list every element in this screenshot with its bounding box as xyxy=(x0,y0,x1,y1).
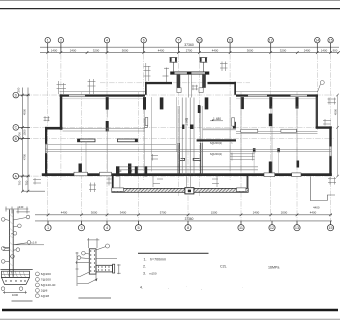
svg-text:3400: 3400 xyxy=(120,210,127,214)
d2 left small dim xyxy=(76,261,90,264)
entry column xyxy=(185,188,194,194)
svg-text:2000: 2000 xyxy=(281,210,288,214)
bottom dim ticks xyxy=(47,214,332,217)
left axis bubbles xyxy=(13,92,30,179)
d1 wall double line xyxy=(10,210,14,278)
west outer wall vertical xyxy=(45,127,47,176)
svg-text:7@200: 7@200 xyxy=(41,278,51,282)
stair half landing slab xyxy=(202,128,236,130)
d1 leader circles xyxy=(1,215,30,263)
thin verticals right rooms xyxy=(254,151,278,173)
interior wall right section upper xyxy=(236,132,318,134)
d1 top dim line xyxy=(5,207,29,214)
svg-text:900: 900 xyxy=(333,49,338,53)
top axis bubbles xyxy=(45,38,333,53)
protrusion lintel 2 xyxy=(237,188,246,192)
stair bay east jamb xyxy=(247,175,249,190)
east step wall xyxy=(316,126,332,128)
d2 wall vertical xyxy=(89,249,96,274)
d2 mid leader line right xyxy=(96,258,117,260)
svg-text:4400: 4400 xyxy=(212,49,219,53)
grid axis 2 vertical xyxy=(60,45,62,180)
stair flight feet xyxy=(182,125,184,130)
raised block right jamb xyxy=(234,82,236,95)
main top wall east xyxy=(236,94,317,96)
svg-text:10: 10 xyxy=(198,39,202,43)
grid axis 11a vertical xyxy=(229,45,231,180)
svg-text:1000: 1000 xyxy=(12,293,19,297)
stairwell wall upper thin lines xyxy=(178,106,202,143)
svg-text:C2L: C2L xyxy=(220,265,227,269)
svg-text:3000: 3000 xyxy=(247,49,254,53)
door arc detail x92 xyxy=(89,183,96,193)
d2 leader circle top xyxy=(96,244,110,250)
interior partition wall row B west xyxy=(78,139,96,142)
small marks at stair center dims xyxy=(153,176,219,188)
svg-text:2400: 2400 xyxy=(70,49,77,53)
d2 footing horizontal xyxy=(96,265,113,272)
svg-text:11: 11 xyxy=(239,226,243,230)
white pier left edge of stair block xyxy=(145,118,148,126)
west wall window lines xyxy=(45,144,47,153)
bottom bubble numerals xyxy=(47,226,333,230)
svg-text:4.: 4. xyxy=(140,286,143,290)
grid row C horizontal xyxy=(24,126,334,128)
svg-text:15: 15 xyxy=(328,226,332,230)
small dim cluster at raised block left xyxy=(144,63,151,81)
pier under top wall at axis11 xyxy=(241,97,244,109)
interior wall west section upper xyxy=(63,128,146,131)
left dim bottom terminator xyxy=(22,190,45,192)
small dim cluster at raised block right xyxy=(220,62,228,72)
top dim texts xyxy=(51,49,338,53)
d2 bottom leaders xyxy=(76,252,98,286)
top wall inner line west xyxy=(60,98,146,100)
entry column core xyxy=(188,190,191,193)
top grey edge xyxy=(0,0,340,2)
raised block wall right part xyxy=(208,82,237,84)
east wall window gap xyxy=(330,147,332,157)
lintel on south wall right 1 xyxy=(264,173,275,177)
corridor rail line 2 xyxy=(119,169,258,171)
svg-text:6: 6 xyxy=(143,39,145,43)
d2 footing end plate xyxy=(113,264,115,273)
grid axis 12 vertical xyxy=(270,45,272,221)
top border line xyxy=(0,8,340,10)
window in top wall east 2 xyxy=(291,95,308,97)
corridor rail line 1 xyxy=(119,166,258,168)
pier blobs on corridor wall right xyxy=(253,148,256,152)
svg-text:4: 4 xyxy=(106,226,108,230)
shaft band dark block left xyxy=(170,72,174,75)
NE corner wall vertical xyxy=(316,94,318,128)
grid axis 1 vertical xyxy=(47,45,49,221)
svg-text:>: > xyxy=(231,141,233,145)
small dim ticks right-mid xyxy=(230,153,255,161)
pier row A2 at x129 xyxy=(128,164,131,174)
d1 footing top line xyxy=(1,269,33,271)
d1 footing mid line xyxy=(2,273,30,275)
pier axis12 mid xyxy=(269,114,273,127)
vent cap right xyxy=(200,57,208,71)
svg-text:2400: 2400 xyxy=(253,210,260,214)
interior partition wall row B mid xyxy=(118,139,138,142)
bottom axis bubbles xyxy=(45,221,334,231)
tick cluster below shaft xyxy=(192,85,199,90)
svg-text:15: 15 xyxy=(329,39,333,43)
svg-text:2.: 2. xyxy=(143,265,146,269)
svg-text:4500: 4500 xyxy=(333,108,337,115)
d1 bottom circles xyxy=(1,287,23,291)
top bubble numerals xyxy=(47,39,333,43)
window in top wall east 1 xyxy=(248,95,267,97)
d2 top dim xyxy=(87,238,99,248)
pier under top wall at axis6 xyxy=(143,97,146,110)
notes divider line xyxy=(138,252,209,254)
pier at axis11a xyxy=(233,122,236,130)
bottom dim texts xyxy=(61,210,317,214)
grid axis 6 vertical xyxy=(143,45,145,180)
bottom dim line 1 xyxy=(35,214,332,216)
pier row A2 at x80 xyxy=(79,164,82,174)
svg-text:3200: 3200 xyxy=(93,49,100,53)
bottom title bar line xyxy=(2,309,338,312)
stair handrail hook left xyxy=(180,158,185,160)
left dim line 2 xyxy=(27,88,29,192)
svg-text:h=700mm: h=700mm xyxy=(150,258,166,262)
svg-text:8: 8 xyxy=(187,226,189,230)
pier on south wall axis5 xyxy=(135,166,138,176)
d1 footing body xyxy=(2,271,30,277)
left dim rotated texts xyxy=(17,87,29,185)
underline small mid xyxy=(78,297,111,299)
bottom dim line 2 xyxy=(35,220,332,222)
d1 mid leader line xyxy=(13,244,44,246)
interior thin wall lines xyxy=(86,97,317,174)
svg-text:2400: 2400 xyxy=(304,49,311,53)
svg-text:240: 240 xyxy=(19,205,24,209)
svg-text:4700: 4700 xyxy=(23,153,27,160)
svg-text:4400: 4400 xyxy=(313,206,320,210)
svg-text:1500: 1500 xyxy=(211,210,218,214)
d2 wall rebar dots xyxy=(90,250,95,271)
top dim ticks xyxy=(46,51,339,54)
pier on south wall x116 xyxy=(116,166,119,176)
left dim line 1 xyxy=(22,88,24,192)
svg-text:4500: 4500 xyxy=(23,108,27,115)
svg-text:305: 305 xyxy=(128,169,133,173)
east outer wall vertical xyxy=(329,126,331,175)
svg-text:3: 3 xyxy=(80,226,82,230)
d2 right dim bracket xyxy=(117,264,121,274)
small dim SE corner xyxy=(328,177,336,185)
svg-text:3.: 3. xyxy=(143,272,146,276)
shaft band lower edge xyxy=(170,73,209,75)
svg-text:1500: 1500 xyxy=(23,129,27,136)
svg-text:13: 13 xyxy=(295,226,299,230)
svg-text:5: 5 xyxy=(137,226,139,230)
svg-text:4400: 4400 xyxy=(61,210,68,214)
south wall band xyxy=(42,173,332,176)
grid axis 7 vertical xyxy=(178,45,180,196)
shaft top slab band xyxy=(170,72,209,75)
svg-text:4@28: 4@28 xyxy=(41,294,50,298)
lintel on south wall right 2 xyxy=(292,173,301,177)
bottom grey edge xyxy=(0,318,340,320)
elevation mark -1.480 xyxy=(210,117,223,121)
interior wall long at y150 xyxy=(45,145,331,152)
underline small left xyxy=(12,300,33,302)
west step wall xyxy=(45,127,63,130)
shaft left wall column xyxy=(177,74,181,87)
white pier right edge of stair block xyxy=(232,118,235,126)
pier under top wall at axis13 xyxy=(296,97,299,109)
grid axis 8 vertical xyxy=(187,150,189,221)
raised block wall left part xyxy=(145,82,172,84)
top dim line 2 xyxy=(40,52,339,54)
svg-text:37360: 37360 xyxy=(185,217,194,221)
pier on south wall axis12 xyxy=(269,162,273,174)
pier at axis10 stair xyxy=(198,105,201,113)
grid row B horizontal xyxy=(24,138,334,140)
grid axis 15 vertical xyxy=(330,45,332,221)
main top wall west xyxy=(60,94,146,96)
top wall outer face line east xyxy=(236,90,317,92)
stair protrusion south wall xyxy=(112,188,248,192)
shaft inner flight lines xyxy=(188,74,191,97)
d2 left leader circles xyxy=(77,251,89,259)
pier under top wall at axis12 xyxy=(269,97,272,109)
left dim ticks xyxy=(21,94,29,193)
lintel boxes on right upper wall xyxy=(241,129,258,132)
svg-text:37360: 37360 xyxy=(184,43,194,47)
lintel box 1 on south wall xyxy=(74,172,88,176)
svg-text:4: 4 xyxy=(106,39,108,43)
small tick cluster west of south wall xyxy=(33,178,41,185)
white pier at axis6 mid xyxy=(144,119,147,127)
svg-text:5000: 5000 xyxy=(122,49,129,53)
svg-text:200: 200 xyxy=(17,87,21,92)
svg-text:4400: 4400 xyxy=(310,210,317,214)
svg-text:2: 2 xyxy=(60,39,62,43)
svg-text:7: 7 xyxy=(178,39,180,43)
pier right of stairwell xyxy=(205,97,209,109)
d2 footing rebar dots xyxy=(98,266,110,270)
small dim NE step xyxy=(328,98,337,105)
white pier below shaft left xyxy=(177,88,181,93)
svg-text:12: 12 xyxy=(270,226,274,230)
lintel box on right upper wall 2 xyxy=(281,129,296,132)
svg-text:-1.480: -1.480 xyxy=(212,117,221,121)
svg-text:1400: 1400 xyxy=(51,49,58,53)
d1 footing base trapezoid xyxy=(2,277,30,284)
tick cluster west of step corner xyxy=(44,116,50,121)
window in top wall west xyxy=(69,95,85,98)
lintel box 2 on south wall xyxy=(100,172,112,176)
lintel in partition B mid xyxy=(135,139,138,142)
grid axis 5 vertical xyxy=(138,92,140,221)
small leader circle NE xyxy=(318,81,325,93)
top wall outer face line west xyxy=(60,90,146,92)
pier on corridor axis13 xyxy=(297,161,300,168)
svg-text:1: 1 xyxy=(47,39,49,43)
grid axis 10 vertical xyxy=(199,45,201,196)
svg-text:14: 14 xyxy=(315,39,319,43)
svg-text:6@200: 6@200 xyxy=(41,272,51,276)
svg-text:3000: 3000 xyxy=(91,210,98,214)
shaft band thin edges xyxy=(170,71,209,73)
svg-text:11: 11 xyxy=(228,39,232,43)
svg-text:2@8: 2@8 xyxy=(41,289,48,293)
grid axis 14 vertical xyxy=(316,45,318,130)
svg-text:2700: 2700 xyxy=(186,49,193,53)
stair flight foot right xyxy=(190,125,193,130)
svg-text:700: 700 xyxy=(25,180,29,185)
svg-text:16MPa: 16MPa xyxy=(268,266,279,270)
d1 bottom dim xyxy=(3,291,27,294)
right dim ticks xyxy=(336,94,339,178)
SE porch outline xyxy=(310,177,335,201)
svg-text:1400: 1400 xyxy=(321,49,328,53)
grid axis 3 vertical xyxy=(81,92,83,221)
notes line4 specks xyxy=(168,284,243,291)
legend texts xyxy=(41,272,56,298)
right dim line xyxy=(337,95,339,176)
stairwell west wall lines xyxy=(178,143,202,175)
lintel in partition B west xyxy=(78,139,81,142)
svg-text:1: 1 xyxy=(47,226,49,230)
svg-text:12: 12 xyxy=(269,39,273,43)
svg-text:6@200(2): 6@200(2) xyxy=(210,152,222,156)
grid row A' horizontal (raised block) xyxy=(100,82,250,84)
grid axis 4 vertical xyxy=(106,45,108,221)
svg-text:4400: 4400 xyxy=(158,49,165,53)
middle section piers flanking stairwell xyxy=(160,97,164,109)
stair flight edge lines upper xyxy=(182,98,194,175)
door mark below south wall xyxy=(107,177,112,186)
vent cap left xyxy=(170,57,178,71)
svg-text:6@140-40: 6@140-40 xyxy=(41,283,56,287)
d1 wall hatch xyxy=(10,214,14,274)
protrusion inner jamb lines xyxy=(114,176,248,188)
svg-text:1.: 1. xyxy=(144,258,147,262)
raised block left jamb xyxy=(145,82,147,95)
d1 footing rebar dots xyxy=(5,280,25,281)
east wall window lines xyxy=(329,147,331,157)
left bubble letters xyxy=(15,93,18,178)
notes text lines xyxy=(140,258,279,290)
pier on south wall x144 xyxy=(144,166,147,176)
d1 step ledge xyxy=(3,247,10,250)
small dim cluster above wall at x60 xyxy=(57,81,67,94)
grid row A horizontal xyxy=(24,175,334,177)
grid axis 11 vertical xyxy=(240,92,242,221)
stair bay west jamb xyxy=(112,175,114,190)
svg-text:5700: 5700 xyxy=(160,210,167,214)
NW corner wall vertical xyxy=(60,94,63,129)
svg-text:上18级: 上18级 xyxy=(185,118,189,126)
shaft band dark block right xyxy=(205,72,209,75)
pier mid at axis4 xyxy=(106,121,109,132)
protrusion lintel 1 xyxy=(112,188,124,192)
stair door dims small xyxy=(151,154,158,161)
small dim cluster above wall at x90 xyxy=(88,79,96,94)
pier under top wall at axis4 xyxy=(106,97,109,110)
grid axis 13 vertical xyxy=(296,92,298,221)
svg-text:≤1:8: ≤1:8 xyxy=(31,241,37,245)
svg-text:m150: m150 xyxy=(149,272,157,276)
grid row D horizontal xyxy=(24,94,334,96)
small ticks NE inner xyxy=(323,119,331,126)
d1 footing hatch xyxy=(3,271,26,277)
white pier below shaft right xyxy=(199,88,203,93)
shaft band dark block mid xyxy=(187,72,192,75)
svg-text:700: 700 xyxy=(18,180,22,185)
svg-text:6@200(2): 6@200(2) xyxy=(210,141,222,145)
top dim line 1 xyxy=(40,46,339,48)
top wall inner line east xyxy=(236,98,317,100)
svg-text:3200: 3200 xyxy=(280,49,287,53)
stair handrail hook right xyxy=(193,158,200,160)
west wall window gap xyxy=(45,144,47,153)
shaft right wall column xyxy=(202,74,206,87)
shaft small dim line left xyxy=(163,68,170,83)
partition middle-right at row B xyxy=(197,139,236,141)
